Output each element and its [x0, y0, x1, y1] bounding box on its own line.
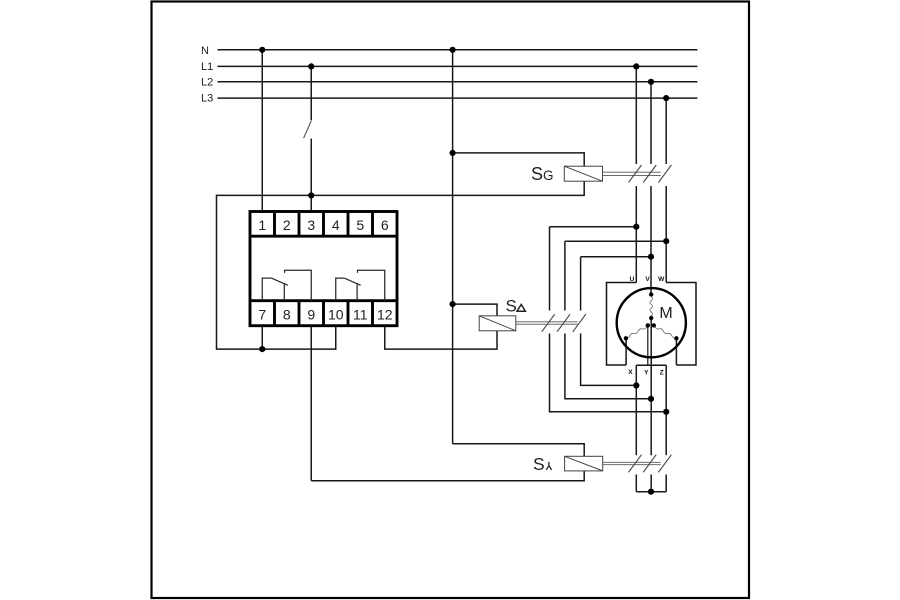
wire phase W lower — [665, 186, 667, 283]
bus labels — [201, 45, 213, 104]
svg-text:N: N — [201, 45, 209, 57]
wire node to SG coil top — [453, 153, 585, 166]
wire N corner to SY coil top — [453, 444, 585, 457]
svg-text:7: 7 — [258, 306, 266, 322]
wire L2 bus — [218, 81, 698, 83]
wire phase U lower — [635, 186, 637, 283]
wire delta branch 2 vertical upper — [564, 241, 566, 310]
wire delta branch 3 vertical upper — [580, 257, 582, 311]
svg-text:V: V — [645, 276, 650, 283]
wire phase W upper — [665, 98, 667, 164]
terminal numbers 7-12 — [258, 306, 392, 322]
wire motor Y upper — [650, 318, 652, 455]
wire motor X upper — [635, 365, 637, 455]
contactor coil SD (delta) — [479, 316, 516, 331]
wire SG coil bottom to terminals 7 10 loop — [217, 181, 585, 349]
wire delta branch 2 lower to Y — [565, 334, 651, 399]
SG contact slashes — [629, 165, 672, 183]
svg-text:S: S — [506, 297, 517, 316]
wire node to SD coil top — [453, 304, 497, 316]
svg-text:Y: Y — [644, 369, 649, 376]
switch blade on L1 drop — [304, 121, 312, 139]
relay contact 2 (terminals 10-11-12) — [336, 270, 385, 301]
wire phase U upper — [635, 66, 637, 164]
wire motor Z lower — [665, 475, 667, 492]
contactor coil SY (star) — [565, 456, 603, 471]
wire delta branch 1 lower to Z — [550, 334, 667, 412]
wire delta branch 3 top — [581, 256, 651, 258]
wire motor Y lower — [650, 475, 652, 492]
SY contact slashes — [629, 455, 672, 473]
svg-text:L2: L2 — [201, 77, 213, 89]
svg-text:S: S — [533, 454, 545, 474]
svg-text:8: 8 — [283, 306, 291, 322]
wire switch to terminal 3 — [310, 139, 312, 212]
wire L1 to switch — [310, 66, 312, 120]
terminal row separators — [250, 236, 397, 301]
svg-text:6: 6 — [381, 217, 389, 233]
svg-text:Z: Z — [660, 369, 664, 376]
wire phase V lower — [650, 186, 652, 295]
wire SY coil bottom to terminal 9 — [311, 471, 584, 481]
svg-text:2: 2 — [283, 217, 291, 233]
wire star shorting bar — [636, 491, 666, 493]
motor enclosure — [607, 283, 697, 366]
svg-text:M: M — [659, 305, 672, 322]
wire terminal 9 drop — [310, 326, 312, 481]
wire delta branch 1 top — [550, 226, 637, 228]
wire winding center pair — [647, 325, 649, 365]
relay contact 1 (terminals 7-8-9) — [262, 270, 311, 301]
svg-text:5: 5 — [356, 217, 364, 233]
svg-text:4: 4 — [332, 217, 340, 233]
svg-text:9: 9 — [307, 306, 315, 322]
svg-text:1: 1 — [258, 217, 266, 233]
terminal dividers bottom row — [275, 301, 373, 326]
winding left squiggle — [626, 327, 647, 339]
wire motor X lower — [635, 475, 637, 492]
wire L3 bus — [218, 97, 698, 99]
wire delta branch 3 lower to X — [581, 334, 637, 386]
wire motor Z upper — [665, 365, 667, 455]
svg-text:12: 12 — [377, 306, 393, 322]
wire N bus — [218, 49, 698, 51]
svg-text:10: 10 — [328, 306, 344, 322]
wire N vertical to coils — [452, 50, 454, 444]
contactor coil SG — [564, 166, 602, 181]
svg-text:U: U — [630, 276, 635, 283]
wire delta branch 2 top — [565, 240, 666, 242]
wire terminal 7 drop — [261, 326, 263, 349]
terminal labels U V W — [630, 276, 666, 283]
wire delta branch 1 vertical upper — [549, 227, 551, 311]
relay terminal block outer box — [250, 212, 397, 326]
svg-text:W: W — [658, 276, 665, 283]
svg-text:11: 11 — [353, 306, 368, 322]
terminal labels X Y Z — [628, 369, 663, 376]
SG link double line — [603, 172, 661, 175]
wire phase V upper — [650, 82, 652, 164]
SD contact slashes — [542, 314, 586, 332]
svg-text:3: 3 — [307, 217, 315, 233]
svg-text:X: X — [628, 369, 633, 376]
svg-text:L3: L3 — [201, 92, 213, 104]
wire N to terminal 1 — [261, 50, 263, 212]
terminal dividers top row — [275, 212, 373, 237]
winding right squiggle — [655, 327, 676, 339]
motor winding node dots — [624, 292, 679, 340]
wire terminal 12 to SD coil bottom — [385, 326, 497, 349]
SY link double line — [603, 462, 661, 464]
svg-text:L1: L1 — [201, 61, 213, 73]
wire L1 bus — [218, 65, 698, 67]
SD link double line — [516, 322, 578, 324]
border frame — [152, 2, 750, 599]
motor circle — [617, 288, 686, 357]
winding V squiggle — [650, 297, 653, 316]
terminal numbers 1-6 — [258, 217, 389, 233]
